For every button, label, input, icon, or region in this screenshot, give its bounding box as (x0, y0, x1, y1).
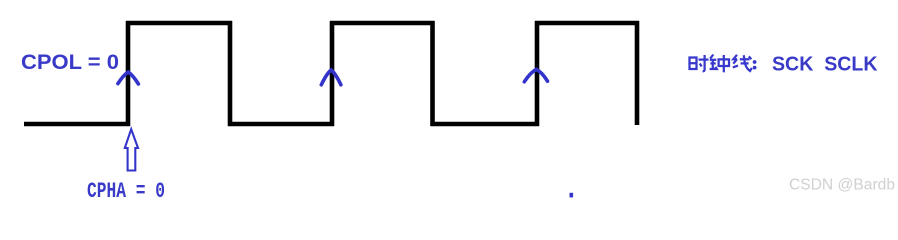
svg-text:SCK SCLK: SCK SCLK (772, 53, 878, 76)
svg-text:CPHA = 0: CPHA = 0 (87, 178, 165, 199)
small blue dot marker (570, 193, 574, 198)
rising-edge arrowhead 2 (321, 70, 341, 85)
clock waveform SCK: rising edge 2 (330, 21, 335, 126)
clock waveform SCK: falling edge 3 (end of trace) (635, 21, 640, 125)
label CPOL = 0 (21, 51, 119, 74)
clock waveform SCK: rising edge 1 (126, 21, 131, 126)
clock waveform SCK: low segment 2 (228, 122, 334, 127)
watermark CSDN @Bardb (789, 177, 895, 194)
hanzi 钟 (zhong - clock) (710, 55, 729, 73)
svg-text:CPOL = 0: CPOL = 0 (21, 51, 119, 74)
clock waveform SCK: high segment 2 (330, 21, 435, 26)
clock waveform SCK: rising edge 3 (535, 21, 540, 126)
rising-edge arrowhead 3 (524, 69, 547, 81)
hanzi 时 (shi - time) (690, 55, 709, 71)
clock waveform SCK: low segment 3 (431, 122, 540, 127)
clock waveform SCK: high segment 1 (126, 21, 232, 26)
svg-text:CSDN @Bardb: CSDN @Bardb (789, 177, 895, 194)
hollow up arrow (CPHA sampling marker) (125, 129, 138, 170)
hanzi 线 (xian - line/wire) (733, 55, 752, 71)
fullwidth colon of 时钟线： (753, 60, 757, 69)
clock waveform SCK: falling edge 2 (430, 21, 435, 126)
rising-edge arrowhead 1 (118, 72, 138, 84)
clock waveform SCK: falling edge 1 (228, 21, 233, 126)
label CPHA = 0 (87, 178, 165, 204)
label SCK SCLK (772, 53, 878, 76)
clock waveform SCK: high segment 3 (535, 21, 639, 26)
clock waveform SCK: low segment 1 (24, 122, 130, 127)
